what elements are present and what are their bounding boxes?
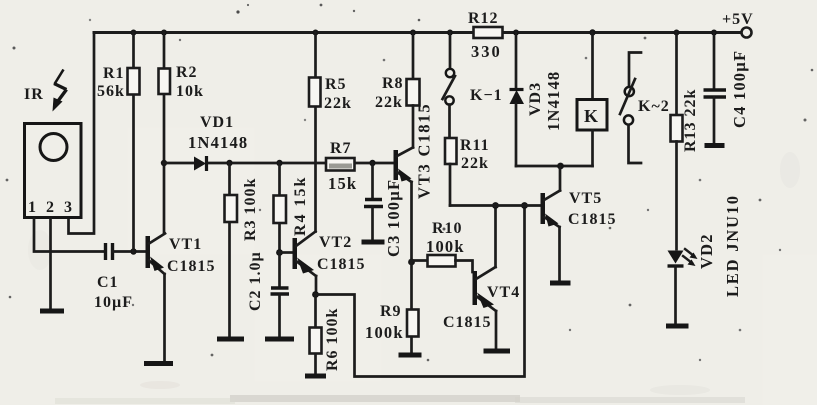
diode VD1 xyxy=(188,114,248,171)
ground VD2 xyxy=(666,324,689,329)
svg-text:+5V: +5V xyxy=(722,11,754,28)
resistor R1 xyxy=(97,33,140,252)
svg-text:K: K xyxy=(584,106,598,126)
ground VT5 xyxy=(550,281,571,286)
node R9 / R10 junction xyxy=(408,259,415,266)
capacitor C3 xyxy=(364,163,403,257)
node K-1 top xyxy=(447,30,453,36)
wire R11 to VT5 base xyxy=(450,204,541,207)
svg-text:VD1: VD1 xyxy=(200,114,234,131)
svg-text:22k: 22k xyxy=(375,94,403,111)
svg-text:VD2: VD2 xyxy=(697,233,716,269)
wire top +5V rail xyxy=(94,31,740,34)
svg-text:R2: R2 xyxy=(176,64,198,81)
svg-text:1N4148: 1N4148 xyxy=(188,133,248,152)
relay coil K xyxy=(577,33,607,167)
node R1 bottom junction xyxy=(130,248,136,254)
wire left rail drop to pin3 xyxy=(69,33,95,234)
node R3 top xyxy=(226,160,232,166)
svg-text:10k: 10k xyxy=(176,83,204,100)
ground C4 xyxy=(705,143,725,148)
resistor R10 xyxy=(412,220,473,272)
svg-text:C1815: C1815 xyxy=(443,314,492,331)
svg-text:R10: R10 xyxy=(432,220,463,237)
ground VT1 emitter xyxy=(144,361,173,366)
ground R6 xyxy=(305,374,326,379)
node R1 top xyxy=(131,30,137,36)
svg-text:100k: 100k xyxy=(426,237,465,256)
node R13 top xyxy=(674,30,680,36)
svg-text:R12: R12 xyxy=(468,10,499,27)
ground VT4 xyxy=(484,349,511,354)
node R2 top xyxy=(161,30,167,36)
node C4 top xyxy=(711,30,717,36)
svg-text:10µF: 10µF xyxy=(94,294,133,311)
svg-text:C3 100µF: C3 100µF xyxy=(384,179,403,257)
node R8 top xyxy=(410,30,416,36)
svg-text:R1: R1 xyxy=(103,65,125,82)
svg-text:R6 100k: R6 100k xyxy=(324,308,341,371)
svg-text:R8: R8 xyxy=(382,75,404,92)
IR receiver module box xyxy=(25,124,82,218)
resistor R12 xyxy=(468,10,503,61)
resistor R2 xyxy=(159,33,204,234)
svg-text:VD3: VD3 xyxy=(527,82,544,116)
+5V terminal xyxy=(742,28,752,38)
LED VD2 xyxy=(668,194,743,324)
node R2 / VD1 junction xyxy=(161,160,167,166)
ground R3 xyxy=(217,337,244,342)
svg-text:VT3 C1815: VT3 C1815 xyxy=(415,103,434,199)
node VT2 emitter / R6 xyxy=(312,291,319,298)
wire VD3 / K / VT5 collector xyxy=(516,165,593,168)
node R5 top xyxy=(313,30,319,36)
svg-text:C1815: C1815 xyxy=(568,211,617,228)
resistor R7 xyxy=(326,140,357,193)
svg-text:IR: IR xyxy=(24,86,44,103)
svg-text:1: 1 xyxy=(28,199,37,216)
svg-text:R13 22k: R13 22k xyxy=(682,89,699,152)
svg-text:22k: 22k xyxy=(461,155,489,172)
transistor VT4 xyxy=(443,206,520,350)
resistor R8 xyxy=(375,33,420,148)
resistor R9 xyxy=(365,262,419,353)
capacitor C2 xyxy=(247,251,289,337)
svg-text:15k: 15k xyxy=(328,174,357,193)
svg-text:3: 3 xyxy=(64,199,73,216)
svg-text:C4 100µF: C4 100µF xyxy=(730,50,749,128)
svg-text:C2 1.0µ: C2 1.0µ xyxy=(247,251,264,311)
svg-text:100k: 100k xyxy=(365,323,404,342)
resistor R3 xyxy=(225,163,260,337)
svg-text:R9: R9 xyxy=(380,303,402,320)
node VT5 collector xyxy=(557,163,564,170)
node bottom loop top xyxy=(521,202,528,209)
svg-text:R3 100k: R3 100k xyxy=(242,178,259,241)
transistor VT2 xyxy=(280,232,366,295)
svg-text:K~2: K~2 xyxy=(638,98,670,115)
resistor R11 xyxy=(445,105,490,206)
svg-text:C1815: C1815 xyxy=(317,256,366,273)
svg-text:LED JNU10: LED JNU10 xyxy=(723,194,742,297)
svg-text:R4 15k: R4 15k xyxy=(292,176,309,236)
node VD3 top xyxy=(513,30,519,36)
wire pin 1 xyxy=(34,219,104,252)
wire VD1 signal line xyxy=(164,162,194,165)
resistor R6 xyxy=(310,295,342,375)
capacitor C4 xyxy=(704,33,750,144)
svg-text:VT5: VT5 xyxy=(569,190,602,207)
svg-text:1N4148: 1N4148 xyxy=(544,71,563,131)
svg-text:2: 2 xyxy=(46,199,55,216)
switch K~2 xyxy=(620,53,670,164)
transistor VT1 xyxy=(146,234,216,363)
wire pin 2 xyxy=(49,219,52,309)
node VT4 collector xyxy=(492,202,499,209)
node R4 top xyxy=(276,160,282,166)
svg-text:R7: R7 xyxy=(330,140,352,157)
svg-text:R5: R5 xyxy=(325,76,347,93)
switch K-1 xyxy=(443,33,503,105)
ground R9 xyxy=(399,353,422,358)
wire VT2 emitter to bottom loop xyxy=(316,206,525,377)
svg-text:R11: R11 xyxy=(460,137,490,154)
resistor R5 xyxy=(309,33,352,232)
transistor VT3 xyxy=(394,103,434,262)
resistor R4 xyxy=(274,163,310,253)
ground C3 xyxy=(362,240,385,245)
svg-text:22k: 22k xyxy=(324,95,352,112)
transistor VT5 xyxy=(541,166,617,281)
diode VD3 xyxy=(510,33,564,167)
svg-text:K−1: K−1 xyxy=(470,87,503,104)
node relay K top xyxy=(589,29,595,35)
node C3 top xyxy=(369,160,375,166)
node R4 bottom / VT2 base / C2 xyxy=(276,249,283,256)
IR lightning arrow xyxy=(55,70,64,85)
capacitor C1 xyxy=(94,243,133,311)
svg-text:VT4: VT4 xyxy=(487,284,520,301)
svg-text:VT2: VT2 xyxy=(319,234,352,251)
IR module lens circle xyxy=(40,134,67,161)
svg-text:330: 330 xyxy=(471,42,502,61)
wire C1 to VT1 base xyxy=(113,250,146,253)
svg-text:VT1: VT1 xyxy=(169,236,202,253)
svg-text:56k: 56k xyxy=(97,83,125,100)
svg-text:C1815: C1815 xyxy=(167,258,216,275)
svg-text:C1: C1 xyxy=(97,274,119,291)
resistor R13 xyxy=(671,33,700,250)
ground C2 xyxy=(265,337,294,342)
ground pin 2 xyxy=(40,309,64,314)
